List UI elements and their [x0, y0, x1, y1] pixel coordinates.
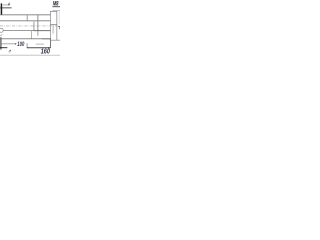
dimension line 160	[27, 46, 51, 49]
head bottom outline	[50, 23, 57, 26]
dimension line left dark segment	[0, 46, 7, 49]
head left edge long extension x50.3	[49, 11, 52, 48]
extension x50.3 darker lower segment	[49, 38, 52, 48]
svg-text:160: 160	[41, 47, 50, 56]
top-left horizontal edge line	[0, 6, 12, 9]
body top outline	[0, 13, 51, 16]
lower view line left	[3, 29, 34, 32]
light segment y44 right of text	[36, 43, 44, 46]
right small dimension mark horizontal	[58, 25, 60, 28]
top-left small gray line	[3, 4, 8, 7]
lower view line right darker	[34, 29, 50, 32]
top-left small dark tick	[8, 2, 10, 5]
body step line x38	[36, 15, 39, 32]
background	[0, 0, 60, 60]
lowest band left bar	[0, 37, 2, 49]
top-left thick end bar	[1, 3, 3, 14]
body step line x27	[26, 15, 29, 21]
top-right light dimension line	[52, 9, 60, 12]
lower view vertical x34	[33, 22, 36, 32]
faint vertical x59	[58, 11, 61, 25]
leader diagonal mark	[0, 34, 2, 36]
centerline dash-dot	[0, 25, 58, 27]
right dimension line y40	[51, 39, 61, 42]
lowest band top line darker right segment	[42, 37, 51, 40]
head top outline	[50, 10, 57, 13]
top-right label underline	[52, 5, 60, 8]
vertical x31.6 between bands	[30, 31, 33, 39]
extension vertical x27	[26, 43, 29, 48]
vertical x53	[52, 25, 55, 34]
small arrow mark below	[9, 50, 11, 52]
body bottom outline	[0, 19, 51, 22]
svg-text:100: 100	[17, 42, 24, 48]
small faint dash under mark	[9, 52, 11, 55]
bottom frame line	[0, 54, 60, 57]
lowest band bottom line	[0, 43, 15, 46]
top-left line faint tail	[8, 4, 11, 7]
dimension arrow left	[27, 47, 29, 48]
dimension arrow at x16	[15, 43, 17, 45]
right small dimension mark vertical	[58, 27, 61, 29]
step line x38 lower extension	[37, 31, 40, 36]
dimension arrow right	[48, 47, 50, 48]
head right edge x56.6	[56, 11, 59, 40]
lower view circle	[0, 28, 3, 32]
lowest band top line	[0, 37, 50, 40]
